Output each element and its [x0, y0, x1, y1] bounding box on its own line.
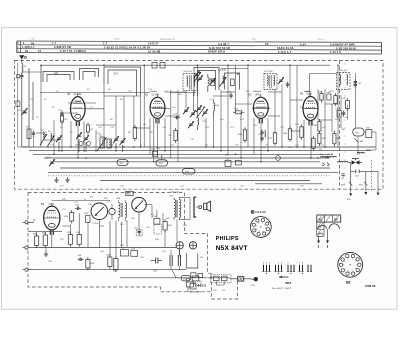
heater choke S24 [338, 161, 348, 162]
capacitor C53 [355, 170, 360, 178]
junction ring [276, 156, 281, 161]
label B2 [346, 280, 350, 284]
box R39 [121, 248, 129, 257]
capacitor C1 [17, 73, 24, 147]
svg-text:S17 S18: S17 S18 [264, 71, 273, 73]
box C1a [16, 101, 20, 107]
trimmer C24 [210, 78, 216, 86]
capacitor C30 [260, 130, 263, 142]
box R34 [85, 213, 91, 223]
resistor R40 [163, 219, 172, 233]
svg-text:5 04: 5 04 [300, 42, 306, 46]
trimmer C11 [120, 138, 126, 152]
small coil S19c [265, 131, 266, 138]
trimmer C21 [202, 109, 208, 116]
capacitor C4 [59, 110, 64, 117]
box C33 [151, 149, 158, 156]
mains switch SK3 [348, 159, 362, 165]
terminal plus [22, 268, 34, 271]
loudspeaker [199, 201, 211, 211]
svg-text:62V: 62V [347, 199, 351, 201]
svg-text:GR: GR [200, 257, 204, 259]
box C62 [153, 216, 160, 224]
choke extra [357, 152, 365, 153]
parts value table [17, 38, 382, 54]
bus wire 5 [51, 161, 321, 163]
svg-text:C7R 110-125V: C7R 110-125V [188, 292, 202, 294]
svg-text:1: 1 [262, 222, 263, 224]
small coil S12 [198, 115, 199, 130]
switch SK2 contacts [322, 163, 329, 167]
tube B5 UAF42 [41, 202, 60, 235]
capacitor C48 [327, 92, 338, 106]
resistor R36 [42, 233, 47, 249]
bus wire 8 [100, 180, 310, 182]
svg-text:3A: 3A [265, 42, 269, 46]
label 62V [347, 199, 379, 202]
right margin dash ticks [344, 64, 346, 184]
resistor R9 [169, 128, 178, 143]
resistor R35 [33, 234, 39, 249]
mech coupling dotted [48, 175, 330, 177]
svg-text:SA7: SA7 [114, 73, 119, 76]
label SK1 pos [272, 287, 292, 290]
svg-text:Pos: 4(4) TC, 2A P2: Pos: 4(4) TC, 2A P2 [272, 287, 292, 290]
tube B3 UF41 [249, 94, 269, 124]
AF chassis dashed border [28, 192, 238, 299]
tone circle [90, 196, 108, 219]
resistor R37 [67, 232, 73, 247]
resistor R42 [107, 255, 113, 270]
box R32r [366, 127, 372, 137]
valve socket base diagram [250, 217, 271, 238]
capacitor C65 [151, 258, 163, 273]
coil S3 [48, 131, 55, 146]
tuning gang arrow [97, 138, 107, 152]
AF wire [34, 248, 207, 278]
capacitor C14 [173, 114, 180, 120]
resistor R17 [268, 130, 277, 146]
ground [54, 177, 58, 182]
SK1 arrow [279, 276, 289, 278]
osc arrow [197, 107, 206, 119]
switch SK2 mark b [359, 182, 367, 186]
AVC line [40, 92, 196, 94]
tube B1 UCH42 [68, 93, 86, 126]
svg-text:6: 6 [256, 229, 257, 231]
svg-text:S10 S11: S10 S11 [184, 71, 193, 73]
resistor R2 [61, 113, 69, 125]
capacitor C70 [213, 276, 219, 292]
svg-text:7.08 52 51 57(0)1 54.04 8 1.5R: 7.08 52 51 57(0)1 54.04 8 1.5R 56 [104, 45, 151, 49]
terminal L7 [22, 220, 36, 224]
svg-text:7: 7 [256, 225, 257, 227]
svg-text:1: 1 [348, 258, 349, 260]
svg-text:47k: 47k [205, 145, 208, 147]
internal partition dashed [339, 60, 341, 189]
IF transformer S10 S11 [183, 71, 197, 91]
capacitor C61 [134, 228, 142, 236]
coil S6 [107, 139, 112, 148]
RF/IF chassis dashed border [15, 60, 384, 189]
capacitor C2b [32, 131, 35, 148]
rounded box S23 [353, 128, 364, 136]
svg-text:5.688 SV 5B: 5.688 SV 5B [54, 45, 71, 49]
capacitor C26 [227, 92, 233, 99]
switch unit SK1 contacts [262, 262, 312, 274]
resistor R30 [313, 119, 321, 134]
coil S2 [40, 130, 47, 146]
wire [18, 63, 41, 147]
text N5X 84VT [216, 245, 248, 252]
trimmer C8 [76, 132, 82, 152]
resistor R43 [113, 256, 118, 273]
svg-text:S20 S21: S20 S21 [339, 70, 348, 72]
wire [351, 163, 378, 193]
resistor C59 [76, 232, 81, 247]
svg-text:8: 8 [258, 223, 259, 225]
resistor R38 [86, 257, 95, 271]
svg-text:7.7: 7.7 [103, 42, 108, 46]
tube B2 UF41 [145, 94, 165, 124]
svg-text:3.04(3/6)7.47 5M6: 3.04(3/6)7.47 5M6 [330, 42, 355, 46]
svg-text:5A2% 54.3A: 5A2% 54.3A [277, 46, 294, 50]
voltage adaptor [199, 284, 206, 287]
svg-text:UCH42: UCH42 [74, 94, 82, 96]
resistor R27 [319, 91, 324, 103]
rounded box S18 [156, 155, 168, 166]
gram jack 2 [189, 242, 196, 249]
svg-text:UCH42: UCH42 [152, 95, 160, 97]
bus wire 1 [22, 146, 376, 148]
drop arrows [349, 192, 379, 196]
choke C54 C55 [319, 154, 336, 158]
bus wire 6 [60, 167, 330, 169]
svg-text:1: 1 [352, 258, 353, 260]
box C39 [235, 161, 241, 165]
label SK1 [285, 281, 291, 285]
pickup loop [186, 253, 198, 268]
svg-text:1k: 1k [140, 145, 142, 147]
label SA56 [218, 69, 226, 72]
svg-text:1447/17: 1447/17 [148, 42, 159, 46]
svg-text:3 10 7 61 1.5(M)(3): 3 10 7 61 1.5(M)(3) [60, 49, 86, 53]
resistor R1b [26, 127, 31, 139]
valve socket B2 diagram [338, 252, 363, 277]
af labels [48, 198, 204, 263]
svg-text:4.5V: 4.5V [251, 285, 256, 287]
svg-text:UY41: UY41 [49, 204, 55, 206]
top feed wire [41, 64, 330, 66]
svg-text:1-2-3-4-5: 1-2-3-4-5 [255, 210, 266, 214]
text PHILIPS [216, 236, 239, 242]
choke box S31 [181, 275, 191, 281]
svg-text:3: 3 [265, 228, 266, 230]
svg-text:1.3(R)4.7: 1.3(R)4.7 [22, 45, 35, 49]
volume pot R12 [46, 157, 55, 166]
jack L9 [108, 202, 116, 221]
label C33 C34 [125, 192, 134, 194]
mains cluster [187, 273, 203, 294]
svg-text:2: 2 [355, 261, 356, 263]
trimmer C20 [196, 105, 202, 112]
svg-text:5 4(3) A 7: 5 4(3) A 7 [278, 50, 292, 54]
wire loop SA2 [80, 69, 99, 81]
trimmer C28 [278, 77, 284, 84]
svg-text:5: 5 [259, 231, 260, 233]
rounded box S19 [183, 169, 196, 174]
resistor R29 [333, 131, 341, 147]
bus wire 9 [255, 183, 322, 185]
wire [37, 210, 177, 259]
trimmer C10 [113, 136, 119, 152]
svg-text:3: 3 [356, 264, 357, 266]
switch SK2 mark c [355, 139, 365, 144]
svg-text:4: 4 [355, 268, 356, 270]
junction dot [237, 73, 238, 74]
IF transformer S17 S18 [264, 71, 277, 90]
trimmer C5 [56, 135, 62, 152]
capacitor C60 [75, 205, 81, 211]
svg-text:7: 7 [345, 268, 346, 270]
trimmer C18 [188, 121, 194, 128]
box C63 [131, 249, 138, 257]
capacitor C71 [221, 276, 227, 292]
svg-text:5: 5 [352, 271, 353, 273]
svg-text:HYB 26: HYB 26 [365, 284, 376, 288]
trimmer C16 [190, 110, 196, 117]
svg-text:B2: B2 [346, 280, 350, 284]
capacitor C52 [354, 73, 362, 95]
label R41 [126, 191, 133, 195]
resistor R13 [233, 109, 244, 114]
speaker indicator circle [132, 197, 147, 212]
terminal minus [22, 246, 34, 249]
svg-text:2 5R 52A M 58: 2 5R 52A M 58 [336, 46, 356, 50]
rectifier output arrows [317, 229, 329, 248]
electrolytic C66 [170, 250, 172, 270]
resistor R44 [190, 282, 196, 289]
rounded box S17b [117, 160, 128, 166]
box C69 [192, 276, 199, 281]
svg-text:27k: 27k [265, 145, 268, 147]
coil S16 [214, 100, 220, 118]
svg-text:4: 4 [262, 231, 263, 233]
svg-text:UF41: UF41 [255, 95, 261, 97]
bus wire 2 [29, 150, 371, 152]
resistor R16 [283, 126, 292, 142]
wire loop S16b [225, 73, 240, 90]
tube B4 UL41 [300, 93, 318, 126]
label B socket numbering [251, 210, 266, 214]
wire loop SA7 [104, 67, 141, 96]
capacitor C64 [78, 255, 84, 261]
wire [341, 95, 376, 155]
junction dots [40, 64, 339, 162]
resistor R31 [318, 131, 327, 146]
wire [28, 201, 180, 257]
svg-text:SA1: SA1 [54, 72, 59, 75]
antenna A1 [19, 55, 26, 63]
wire loop S14 [194, 68, 219, 97]
capacitor C29 [286, 82, 289, 88]
svg-text:5R08P 5(R)1: 5R08P 5(R)1 [208, 50, 226, 54]
fuse VL1 [230, 276, 251, 281]
coil box S8 [152, 63, 157, 69]
svg-text:+5 36 7: +5 36 7 [113, 39, 121, 41]
svg-text:50: 50 [25, 49, 29, 53]
capacitor C49 C50 [335, 109, 349, 120]
misc value labels [18, 66, 346, 157]
svg-text:51 54.2M: 51 54.2M [148, 50, 160, 54]
gram jack 1 [176, 242, 183, 249]
coil box S9 [160, 63, 165, 69]
wire [216, 281, 224, 285]
svg-text:6: 6 [348, 271, 349, 273]
wire jumpers [23, 69, 338, 148]
dashed box mains filter [211, 275, 232, 283]
svg-text:524 ( - ): 524 ( - ) [318, 39, 326, 41]
coil S15 [208, 74, 214, 92]
osc cluster dark [194, 71, 204, 82]
switch SK2 mark a [341, 182, 352, 186]
svg-text:3/4(45) 9/61 5L1: 3/4(45) 9/61 5L1 [160, 39, 176, 41]
svg-text:7 7: 7 7 [52, 41, 57, 45]
label 4.5V [251, 285, 256, 287]
bus row labels [50, 145, 325, 147]
svg-text:57: 57 [38, 49, 42, 53]
svg-text:4.5 36 7: 4.5 36 7 [218, 42, 229, 46]
label C41 [170, 192, 179, 194]
trimmer C15 [183, 107, 189, 114]
resistor R7 [128, 125, 137, 141]
svg-text:5 10 4 8: 5 10 4 8 [330, 50, 341, 54]
svg-text:2: 2 [264, 225, 265, 227]
resistor R28r [343, 98, 350, 111]
selenium rectifier B1 B2 [317, 215, 341, 236]
coil S5 [99, 135, 105, 149]
bus row labels 2 [60, 185, 305, 187]
wire [179, 198, 199, 220]
box C25 [231, 79, 235, 86]
bus wire 4 [44, 157, 330, 159]
electrolytic C67 [178, 250, 180, 271]
resistor R14 [238, 127, 247, 143]
ground [65, 177, 69, 182]
potentiometer R1 [18, 108, 28, 115]
trimmer C9 [83, 135, 89, 152]
svg-text:8.18 7C8 52 5R: 8.18 7C8 52 5R [209, 46, 230, 50]
bus wire 3 [33, 153, 330, 155]
coil S1 [22, 64, 23, 76]
output transformer S27 [170, 196, 181, 221]
svg-text:9: 9 [344, 261, 345, 263]
resistor R21 [312, 136, 315, 151]
dashed box [154, 225, 161, 235]
resistor R33 [64, 210, 74, 224]
osc coil mid [220, 76, 227, 87]
junction rings [79, 142, 90, 146]
svg-text:36: 36 [31, 41, 35, 45]
box C38 [225, 159, 231, 167]
svg-text:8: 8 [343, 265, 344, 267]
coil unit S20 S21 [310, 70, 350, 96]
wire verticals [41, 65, 338, 162]
svg-text:SK1: SK1 [285, 281, 291, 285]
wire loop SA1 [43, 72, 74, 83]
capacitor C51 [342, 174, 345, 179]
wire [172, 270, 230, 278]
resistor R3 [87, 123, 95, 135]
mech link dashed [371, 160, 373, 192]
label HYB 26 [365, 284, 376, 288]
speaker baffle bracket [194, 197, 196, 217]
output transformer S26 [117, 198, 127, 221]
mains plug [251, 277, 258, 281]
resistor R20 [300, 124, 303, 140]
svg-text:B5: B5 [41, 202, 45, 206]
bus wire 7 [48, 172, 338, 174]
svg-text:N5X 84VT: N5X 84VT [216, 245, 248, 252]
svg-text:PHILIPS: PHILIPS [216, 236, 239, 242]
